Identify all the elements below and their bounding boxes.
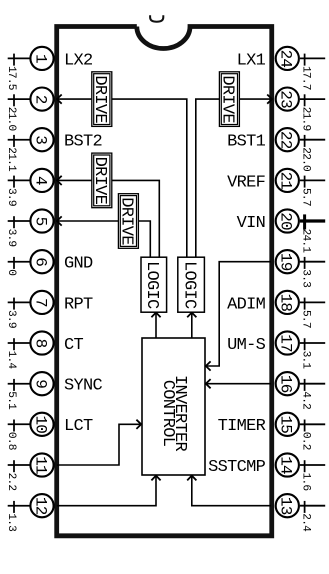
svg-text:DRIVE: DRIVE	[117, 197, 136, 245]
pin 11 lead	[8, 464, 31, 466]
svg-text:3.3: 3.3	[300, 269, 312, 287]
svg-text:22: 22	[277, 131, 295, 149]
pin 7 name RPT	[64, 295, 93, 314]
svg-text:3: 3	[31, 135, 49, 144]
svg-text:4.2: 4.2	[300, 391, 312, 409]
svg-text:0.8: 0.8	[5, 432, 17, 450]
wire pin 19 to INVERTER CONTROL right side (arrow into block)	[206, 262, 271, 371]
svg-text:1.4: 1.4	[5, 351, 17, 370]
svg-text:3.9: 3.9	[5, 229, 17, 247]
svg-text:BST1: BST1	[227, 133, 266, 152]
pin 9 lead	[8, 383, 31, 385]
pin 2 voltage 21.0V tick+label	[5, 94, 17, 131]
pin 5 lead	[8, 220, 31, 222]
pin 24 lead	[300, 57, 325, 59]
svg-text:22.0: 22.0	[300, 147, 312, 172]
svg-text:9: 9	[31, 379, 49, 388]
svg-text:2: 2	[31, 95, 49, 104]
pin 24 voltage 17.7V tick+label	[300, 54, 312, 90]
pin 8 name CT	[64, 336, 84, 355]
svg-text:8: 8	[31, 339, 49, 348]
svg-text:UM-S: UM-S	[227, 336, 266, 355]
pin 10 lead	[8, 423, 31, 425]
pin 15 lead	[300, 423, 325, 425]
pin 21 lead	[300, 179, 325, 181]
pin 16 circle	[276, 372, 299, 395]
pin 12 circle	[30, 494, 53, 517]
svg-text:20: 20	[277, 212, 295, 230]
pin 8 lead	[8, 342, 31, 344]
svg-text:16: 16	[277, 375, 295, 393]
pin 21 name VREF	[227, 173, 265, 192]
svg-text:BST2: BST2	[64, 133, 102, 152]
pin 1 circle	[30, 47, 53, 70]
svg-text:LX1: LX1	[237, 51, 266, 70]
svg-text:23: 23	[277, 90, 295, 108]
pin 24 circle	[276, 47, 299, 70]
svg-text:4: 4	[31, 176, 49, 185]
svg-text:TIMER: TIMER	[218, 417, 266, 436]
pin 3 lead	[8, 139, 31, 141]
logic block LOGIC (left)	[141, 257, 167, 312]
pin 19 voltage 3.3V tick+label	[300, 257, 312, 287]
svg-text:DRIVE: DRIVE	[90, 75, 109, 123]
pin 5 voltage 3.9V tick+label	[5, 216, 17, 246]
pin 4 circle	[30, 169, 53, 192]
driver block DRIVE (pin 2)	[90, 72, 112, 127]
pin 9 circle	[30, 372, 53, 395]
svg-text:5.7: 5.7	[300, 188, 312, 206]
svg-text:CT: CT	[64, 336, 84, 355]
wire pin 23 through DRIVE to LOGIC2 (with arrow at pin 23)	[196, 95, 272, 258]
part designator text fragment (cropped U) above notch	[150, 15, 163, 22]
pin 6 voltage 0V tick+label	[5, 257, 17, 276]
svg-text:15: 15	[277, 415, 295, 433]
wire pin 2 through DRIVE to LOGIC2 (with arrow at pin 2)	[57, 95, 187, 258]
svg-text:3.1: 3.1	[300, 351, 312, 370]
pin 23 circle	[276, 88, 299, 111]
pin 10 circle	[30, 413, 53, 436]
pin 1 name LX2	[64, 51, 93, 70]
svg-text:24: 24	[277, 50, 295, 68]
pin 9 name SYNC	[64, 377, 103, 396]
pin 23 lead	[300, 98, 325, 100]
pin 22 voltage 22.0V tick+label	[300, 135, 312, 172]
pin 8 voltage 1.4V tick+label	[5, 338, 17, 369]
pin 16 lead	[300, 383, 325, 385]
pin 5 circle	[30, 209, 53, 232]
pin 3 circle	[30, 128, 53, 151]
pin 14 voltage 1.6V tick+label	[300, 460, 312, 490]
svg-text:5.7: 5.7	[300, 310, 312, 328]
pin 1 lead	[8, 57, 31, 59]
pin 4 voltage 3.9V tick+label	[5, 176, 17, 206]
pin 18 circle	[276, 291, 299, 314]
pin 20 voltage 24.1V tick+label	[300, 214, 312, 253]
wire INVERTER CONTROL to LOGIC1 (arrow into LOGIC1)	[151, 313, 160, 339]
pin 7 lead	[8, 301, 31, 303]
pin 17 name UM-S	[227, 336, 266, 355]
driver block DRIVE (pin 23)	[218, 72, 240, 127]
svg-text:18: 18	[277, 294, 295, 312]
pin 15 circle	[276, 413, 299, 436]
pin 17 circle	[276, 331, 299, 354]
pin 9 voltage 5.1V tick+label	[5, 379, 17, 410]
pin 8 circle	[30, 331, 53, 354]
pin 23 voltage 21.9V tick+label	[300, 94, 312, 130]
pin 20 circle	[276, 209, 299, 232]
pin 22 lead	[300, 139, 325, 141]
svg-text:2.2: 2.2	[5, 473, 17, 491]
svg-text:19: 19	[277, 253, 295, 271]
logic block LOGIC (right)	[178, 257, 205, 312]
svg-text:12: 12	[31, 497, 49, 515]
svg-text:SYNC: SYNC	[64, 377, 103, 396]
pin 2 circle	[30, 88, 53, 111]
svg-text:LCT: LCT	[64, 417, 93, 436]
svg-text:SSTCMP: SSTCMP	[208, 458, 266, 477]
svg-text:1.6: 1.6	[300, 473, 312, 491]
pin 19 circle	[276, 250, 299, 273]
wire pin 4 through DRIVE to LOGIC1 (with arrow at pin 4)	[57, 176, 159, 257]
pin 7 circle	[30, 291, 53, 314]
pin 18 lead	[300, 301, 325, 303]
svg-text:3.9: 3.9	[5, 310, 17, 328]
svg-text:17: 17	[277, 334, 295, 352]
svg-text:17.5: 17.5	[5, 66, 17, 90]
svg-text:VREF: VREF	[227, 173, 265, 192]
svg-text:5: 5	[31, 217, 49, 226]
pin 6 lead	[8, 261, 31, 263]
svg-text:0.2: 0.2	[300, 432, 312, 450]
svg-text:14: 14	[277, 456, 295, 474]
svg-text:21.1: 21.1	[5, 147, 17, 172]
driver block DRIVE (pin 5)	[117, 194, 139, 249]
pin 4 lead	[8, 179, 31, 181]
svg-text:DRIVE: DRIVE	[90, 157, 109, 205]
pin 11 voltage 2.2V tick+label	[5, 460, 17, 490]
pin 11 circle	[30, 453, 53, 476]
svg-text:1.3: 1.3	[5, 513, 17, 531]
svg-text:LOGIC: LOGIC	[142, 261, 161, 309]
pin 3 name BST2	[64, 133, 102, 152]
svg-text:6: 6	[31, 257, 49, 266]
pin 18 name ADIM	[227, 295, 266, 314]
driver block DRIVE (pin 4)	[90, 153, 112, 208]
pin 13 circle	[276, 494, 299, 517]
svg-text:VIN: VIN	[237, 214, 266, 233]
svg-text:LOGIC: LOGIC	[179, 261, 198, 309]
wire pin 12 to INVERTER CONTROL bottom (arrow into block)	[57, 476, 161, 506]
pin 21 circle	[276, 169, 299, 192]
svg-text:DRIVE: DRIVE	[218, 75, 237, 123]
pin 21 voltage 5.7V tick+label	[300, 176, 312, 206]
pin 12 voltage 1.3V tick+label	[5, 501, 17, 531]
svg-text:13: 13	[277, 497, 295, 515]
inverter control block	[142, 338, 205, 475]
pin 12 lead	[8, 505, 31, 507]
svg-text:2.4: 2.4	[300, 513, 312, 532]
pin 22 circle	[276, 128, 299, 151]
wire INVERTER CONTROL to LOGIC2 (arrow into LOGIC2)	[187, 313, 196, 339]
pin 13 voltage 2.4V tick+label	[300, 501, 312, 532]
pin 20 lead	[300, 219, 325, 222]
svg-text:21.9: 21.9	[300, 107, 312, 131]
svg-text:LX2: LX2	[64, 51, 93, 70]
pin 14 circle	[276, 453, 299, 476]
svg-text:21: 21	[277, 172, 295, 190]
pin 16 voltage 4.2V tick+label	[300, 379, 312, 409]
svg-text:3.9: 3.9	[5, 188, 17, 206]
pin 6 name GND	[64, 255, 93, 274]
pin 15 voltage 0.2V tick+label	[300, 420, 312, 450]
pin 3 voltage 21.1V tick+label	[5, 135, 17, 172]
IC package body U1 with pin-1 notch	[57, 27, 272, 536]
pin 1 voltage 17.5V tick+label	[5, 54, 17, 90]
pin 13 lead	[300, 505, 325, 507]
pin 19 lead	[300, 261, 325, 263]
pin 6 circle	[30, 250, 53, 273]
pin 17 lead	[300, 342, 325, 344]
svg-text:GND: GND	[64, 255, 93, 274]
svg-text:7: 7	[31, 298, 49, 307]
svg-text:RPT: RPT	[64, 295, 93, 314]
pin 15 name TIMER	[218, 417, 266, 436]
pin 20 name VIN	[237, 214, 266, 233]
pin 17 voltage 3.1V tick+label	[300, 338, 312, 369]
svg-text:17.7: 17.7	[300, 66, 312, 90]
wire pin 16 to INVERTER CONTROL right side (arrow into block)	[206, 379, 271, 388]
pin 14 name SSTCMP	[208, 458, 266, 477]
pin 2 lead	[8, 98, 31, 100]
pin 7 voltage 3.9V tick+label	[5, 298, 17, 328]
pin 22 name BST1	[227, 133, 266, 152]
pin 10 voltage 0.8V tick+label	[5, 420, 17, 450]
wire pin 11 to INVERTER CONTROL left side (arrow into block)	[57, 420, 141, 465]
pin 24 name LX1	[237, 51, 266, 70]
svg-text:10: 10	[31, 415, 49, 433]
pin 14 lead	[300, 464, 325, 466]
pin 10 name LCT	[64, 417, 93, 436]
wire pin 5 through DRIVE to LOGIC1 (with arrow at pin 5)	[57, 216, 150, 257]
pin 18 voltage 5.7V tick+label	[300, 298, 312, 328]
svg-text:21.0: 21.0	[5, 107, 17, 132]
wire pin 13 to INVERTER CONTROL bottom (arrow into block)	[187, 476, 271, 506]
svg-text:11: 11	[31, 456, 49, 474]
svg-text:ADIM: ADIM	[227, 295, 266, 314]
svg-text:1: 1	[31, 54, 49, 63]
svg-text:5.1: 5.1	[5, 391, 17, 410]
svg-text:24.1: 24.1	[300, 229, 312, 254]
svg-text:CONTROL: CONTROL	[158, 380, 177, 447]
